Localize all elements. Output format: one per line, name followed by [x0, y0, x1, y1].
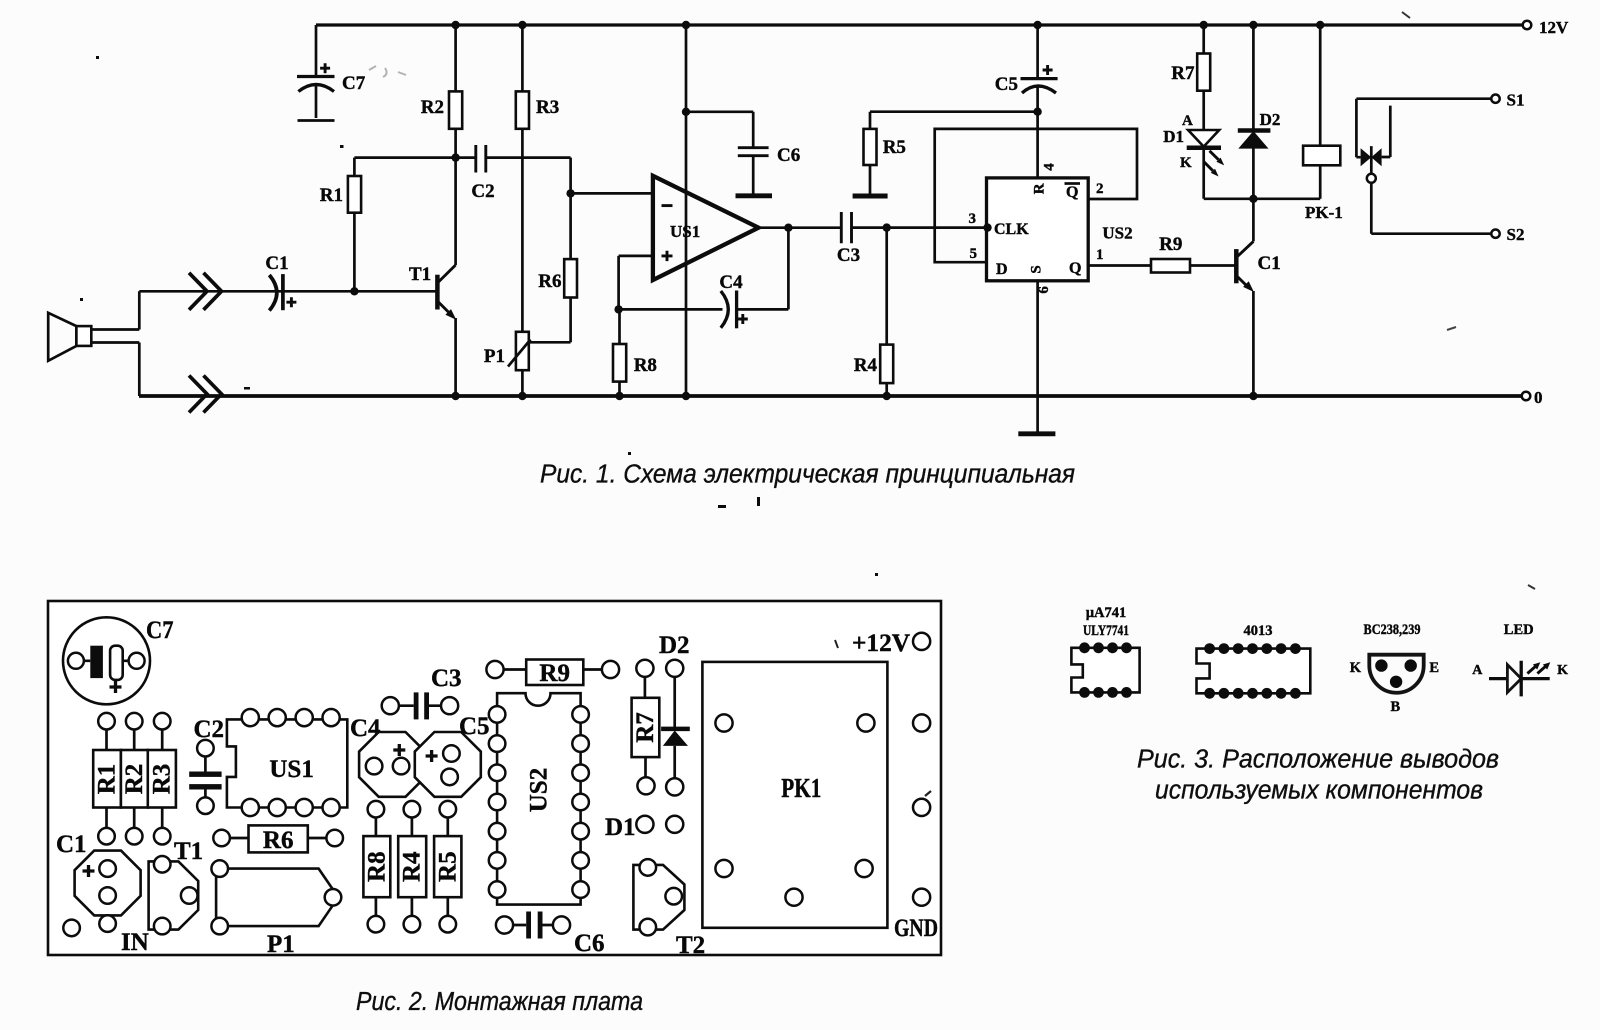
svg-text:+12V: +12V	[852, 630, 910, 657]
svg-text:IN: IN	[121, 929, 149, 956]
svg-text:BC238,239: BC238,239	[1364, 622, 1421, 638]
svg-text:Рис. 2. Монтажная плата: Рис. 2. Монтажная плата	[356, 988, 643, 1016]
svg-text:S1: S1	[1507, 91, 1525, 110]
svg-text:P1: P1	[267, 931, 295, 958]
svg-text:P1: P1	[484, 346, 505, 367]
svg-text:Рис. 1. Схема электрическая пр: Рис. 1. Схема электрическая принципиальн…	[540, 461, 1075, 489]
svg-text:12V: 12V	[1539, 18, 1569, 37]
svg-text:R9: R9	[539, 660, 570, 687]
svg-text:R1: R1	[320, 185, 343, 206]
svg-text:D2: D2	[659, 632, 690, 659]
svg-text:R6: R6	[263, 827, 294, 854]
svg-text:R3: R3	[148, 764, 175, 795]
svg-text:R2: R2	[421, 97, 444, 118]
svg-text:T1: T1	[174, 838, 203, 865]
svg-text:используемых компонентов: используемых компонентов	[1155, 777, 1483, 805]
svg-text:0: 0	[1534, 388, 1543, 407]
svg-text:Q: Q	[1069, 260, 1081, 277]
svg-text:R7: R7	[632, 712, 659, 743]
svg-text:R1: R1	[94, 764, 121, 795]
svg-text:C1: C1	[265, 253, 288, 274]
svg-text:PK1: PK1	[781, 773, 821, 803]
svg-text:A: A	[1472, 663, 1483, 678]
svg-text:C7: C7	[146, 617, 174, 644]
svg-text:C4: C4	[719, 272, 743, 293]
svg-text:µА741: µА741	[1086, 605, 1127, 621]
svg-text:C6: C6	[777, 145, 800, 166]
svg-text:C5: C5	[995, 74, 1018, 95]
svg-text:R5: R5	[434, 851, 461, 882]
svg-text:C3: C3	[431, 665, 462, 692]
svg-text:K: K	[1350, 660, 1362, 676]
svg-text:US2: US2	[525, 768, 552, 812]
svg-text:R: R	[1032, 183, 1048, 194]
svg-text:D: D	[996, 261, 1008, 278]
svg-text:C6: C6	[574, 930, 605, 957]
svg-text:US2: US2	[1102, 224, 1132, 243]
svg-text:2: 2	[1096, 181, 1104, 197]
svg-text:T1: T1	[409, 264, 431, 285]
svg-text:R8: R8	[634, 355, 657, 376]
svg-text:R6: R6	[538, 271, 561, 292]
svg-text:CLK: CLK	[994, 221, 1029, 238]
svg-text:R8: R8	[363, 851, 390, 882]
svg-text:R3: R3	[536, 97, 559, 118]
svg-text:LED: LED	[1504, 622, 1534, 638]
svg-text:C7: C7	[342, 73, 366, 94]
svg-text:E: E	[1429, 660, 1439, 676]
svg-text:R4: R4	[854, 355, 878, 376]
svg-text:3: 3	[969, 211, 977, 227]
svg-text:D1: D1	[1163, 127, 1184, 146]
svg-text:K: K	[1180, 155, 1192, 171]
svg-text:S2: S2	[1507, 225, 1525, 244]
svg-text:C5: C5	[459, 713, 490, 740]
svg-text:B: B	[1390, 699, 1400, 715]
svg-text:5: 5	[970, 246, 978, 262]
svg-text:K: K	[1557, 663, 1568, 678]
svg-text:4: 4	[1042, 163, 1058, 171]
svg-text:C2: C2	[194, 716, 225, 743]
svg-text:D2: D2	[1260, 110, 1281, 129]
svg-text:R4: R4	[399, 851, 426, 882]
svg-text:1: 1	[1096, 247, 1104, 263]
svg-text:C1: C1	[1258, 253, 1281, 274]
svg-text:R5: R5	[883, 137, 906, 158]
svg-text:D1: D1	[605, 814, 636, 841]
svg-text:4013: 4013	[1244, 623, 1273, 639]
svg-text:S: S	[1028, 265, 1044, 273]
svg-text:US1: US1	[269, 756, 313, 783]
svg-text:C1: C1	[56, 831, 87, 858]
svg-text:PK-1: PK-1	[1305, 203, 1343, 222]
svg-text:GND: GND	[894, 915, 938, 942]
svg-text:T2: T2	[676, 932, 705, 959]
svg-text:R7: R7	[1171, 63, 1195, 84]
svg-text:R9: R9	[1159, 234, 1182, 255]
svg-text:Q: Q	[1066, 184, 1078, 201]
svg-text:ULY7741: ULY7741	[1083, 623, 1129, 639]
svg-text:R2: R2	[121, 764, 148, 795]
svg-text:C3: C3	[837, 245, 860, 266]
svg-text:Рис. 3. Расположение выводов: Рис. 3. Расположение выводов	[1137, 746, 1499, 774]
svg-text:US1: US1	[670, 222, 700, 241]
svg-text:C2: C2	[471, 181, 494, 202]
